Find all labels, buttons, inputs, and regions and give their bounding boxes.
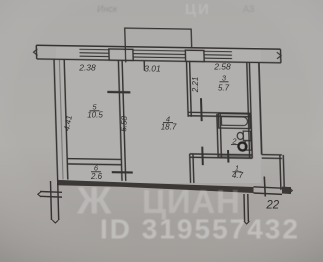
sink bowl dark circle: [238, 142, 246, 150]
svg-text:Инск: Инск: [97, 4, 118, 14]
north wall right end cap: [279, 49, 281, 63]
east jog horizontal wall: [262, 154, 282, 156]
north outer wall band: bottom line: [37, 59, 281, 63]
svg-text:2.21: 2.21: [191, 77, 200, 94]
svg-text:22: 22: [265, 200, 279, 212]
svg-text:10.5: 10.5: [87, 110, 103, 119]
west outer wall middle line: [59, 59, 63, 179]
window W1 room5 glazing lines: [79, 49, 109, 56]
wall pier box between W1 and W2: [109, 49, 133, 60]
svg-text:2.38: 2.38: [78, 63, 96, 73]
window W3 kitchen glazing lines: [204, 51, 232, 58]
niche and bathroom south wall: [190, 154, 253, 155]
door opening room5-room4: [107, 91, 130, 94]
left stub continuation arrow: [38, 192, 41, 197]
north wall left continuation arrow: [33, 49, 37, 56]
west outer wall inner line: [64, 59, 68, 179]
landing wall end block: [282, 187, 291, 194]
kitchen+bathroom east wall (inner face of stair wall): [247, 62, 250, 158]
niche door opening tick: [201, 147, 204, 166]
room5/room6 divider wall: [67, 158, 121, 161]
balcony outline: [125, 28, 192, 63]
toilet cistern: [243, 131, 251, 141]
svg-text:2.6: 2.6: [90, 172, 103, 181]
svg-text:ID 319557432: ID 319557432: [100, 214, 300, 245]
left stub down arrow: [52, 220, 58, 223]
door opening room6: [112, 171, 133, 174]
svg-text:18.7: 18.7: [161, 123, 177, 132]
svg-text:2: 2: [231, 136, 237, 145]
balcony door jamb stub: [143, 61, 145, 71]
kitchen door opening tick: [200, 98, 203, 121]
hallway west wall: [189, 154, 192, 183]
north outer wall band: top line: [36, 45, 280, 49]
toilet bowl: [237, 132, 243, 139]
kitchen west wall / room4 east wall: [186, 61, 188, 116]
apartment interior lighter fill: [56, 47, 261, 183]
svg-text:3.01: 3.01: [144, 64, 161, 74]
svg-text:5.7: 5.7: [218, 84, 230, 93]
north wall left end cap: [35, 45, 37, 59]
left cross vertical wall stub: [51, 181, 52, 220]
wall pier box between W2 and W3: [185, 50, 204, 61]
bathtub inner: [221, 117, 247, 126]
east jog vertical wall: [280, 155, 281, 190]
svg-text:АЗ: АЗ: [243, 4, 254, 14]
kitchen south wall: [188, 112, 251, 113]
svg-text:5.58: 5.58: [119, 115, 129, 132]
stair stub down arrow: [244, 221, 250, 224]
north wall right continuation arrow: [277, 52, 281, 59]
svg-text:2.58: 2.58: [213, 62, 231, 72]
entrance door tick 22: [264, 177, 265, 197]
svg-text:ЦИ: ЦИ: [185, 1, 211, 18]
west outer wall outer line: [54, 59, 58, 182]
entrance threshold lines: [254, 187, 283, 188]
faint bleed-through text top: [97, 1, 254, 18]
bathroom west wall: [217, 114, 218, 158]
south outer wall dark band: [57, 180, 254, 193]
landing wall right arrow: [289, 188, 292, 194]
east outer wall: [259, 62, 262, 154]
stair down wall stub: [243, 194, 246, 222]
sink pedestal: [245, 141, 251, 151]
svg-text:4.7: 4.7: [232, 171, 244, 180]
window W2 room4 glazing lines: [133, 50, 186, 58]
bathtub outer: [218, 114, 250, 129]
left cross horizontal wall stub: [40, 191, 62, 194]
bathroom door opening tick: [227, 150, 229, 163]
wall between room5 and room4: [118, 60, 122, 181]
